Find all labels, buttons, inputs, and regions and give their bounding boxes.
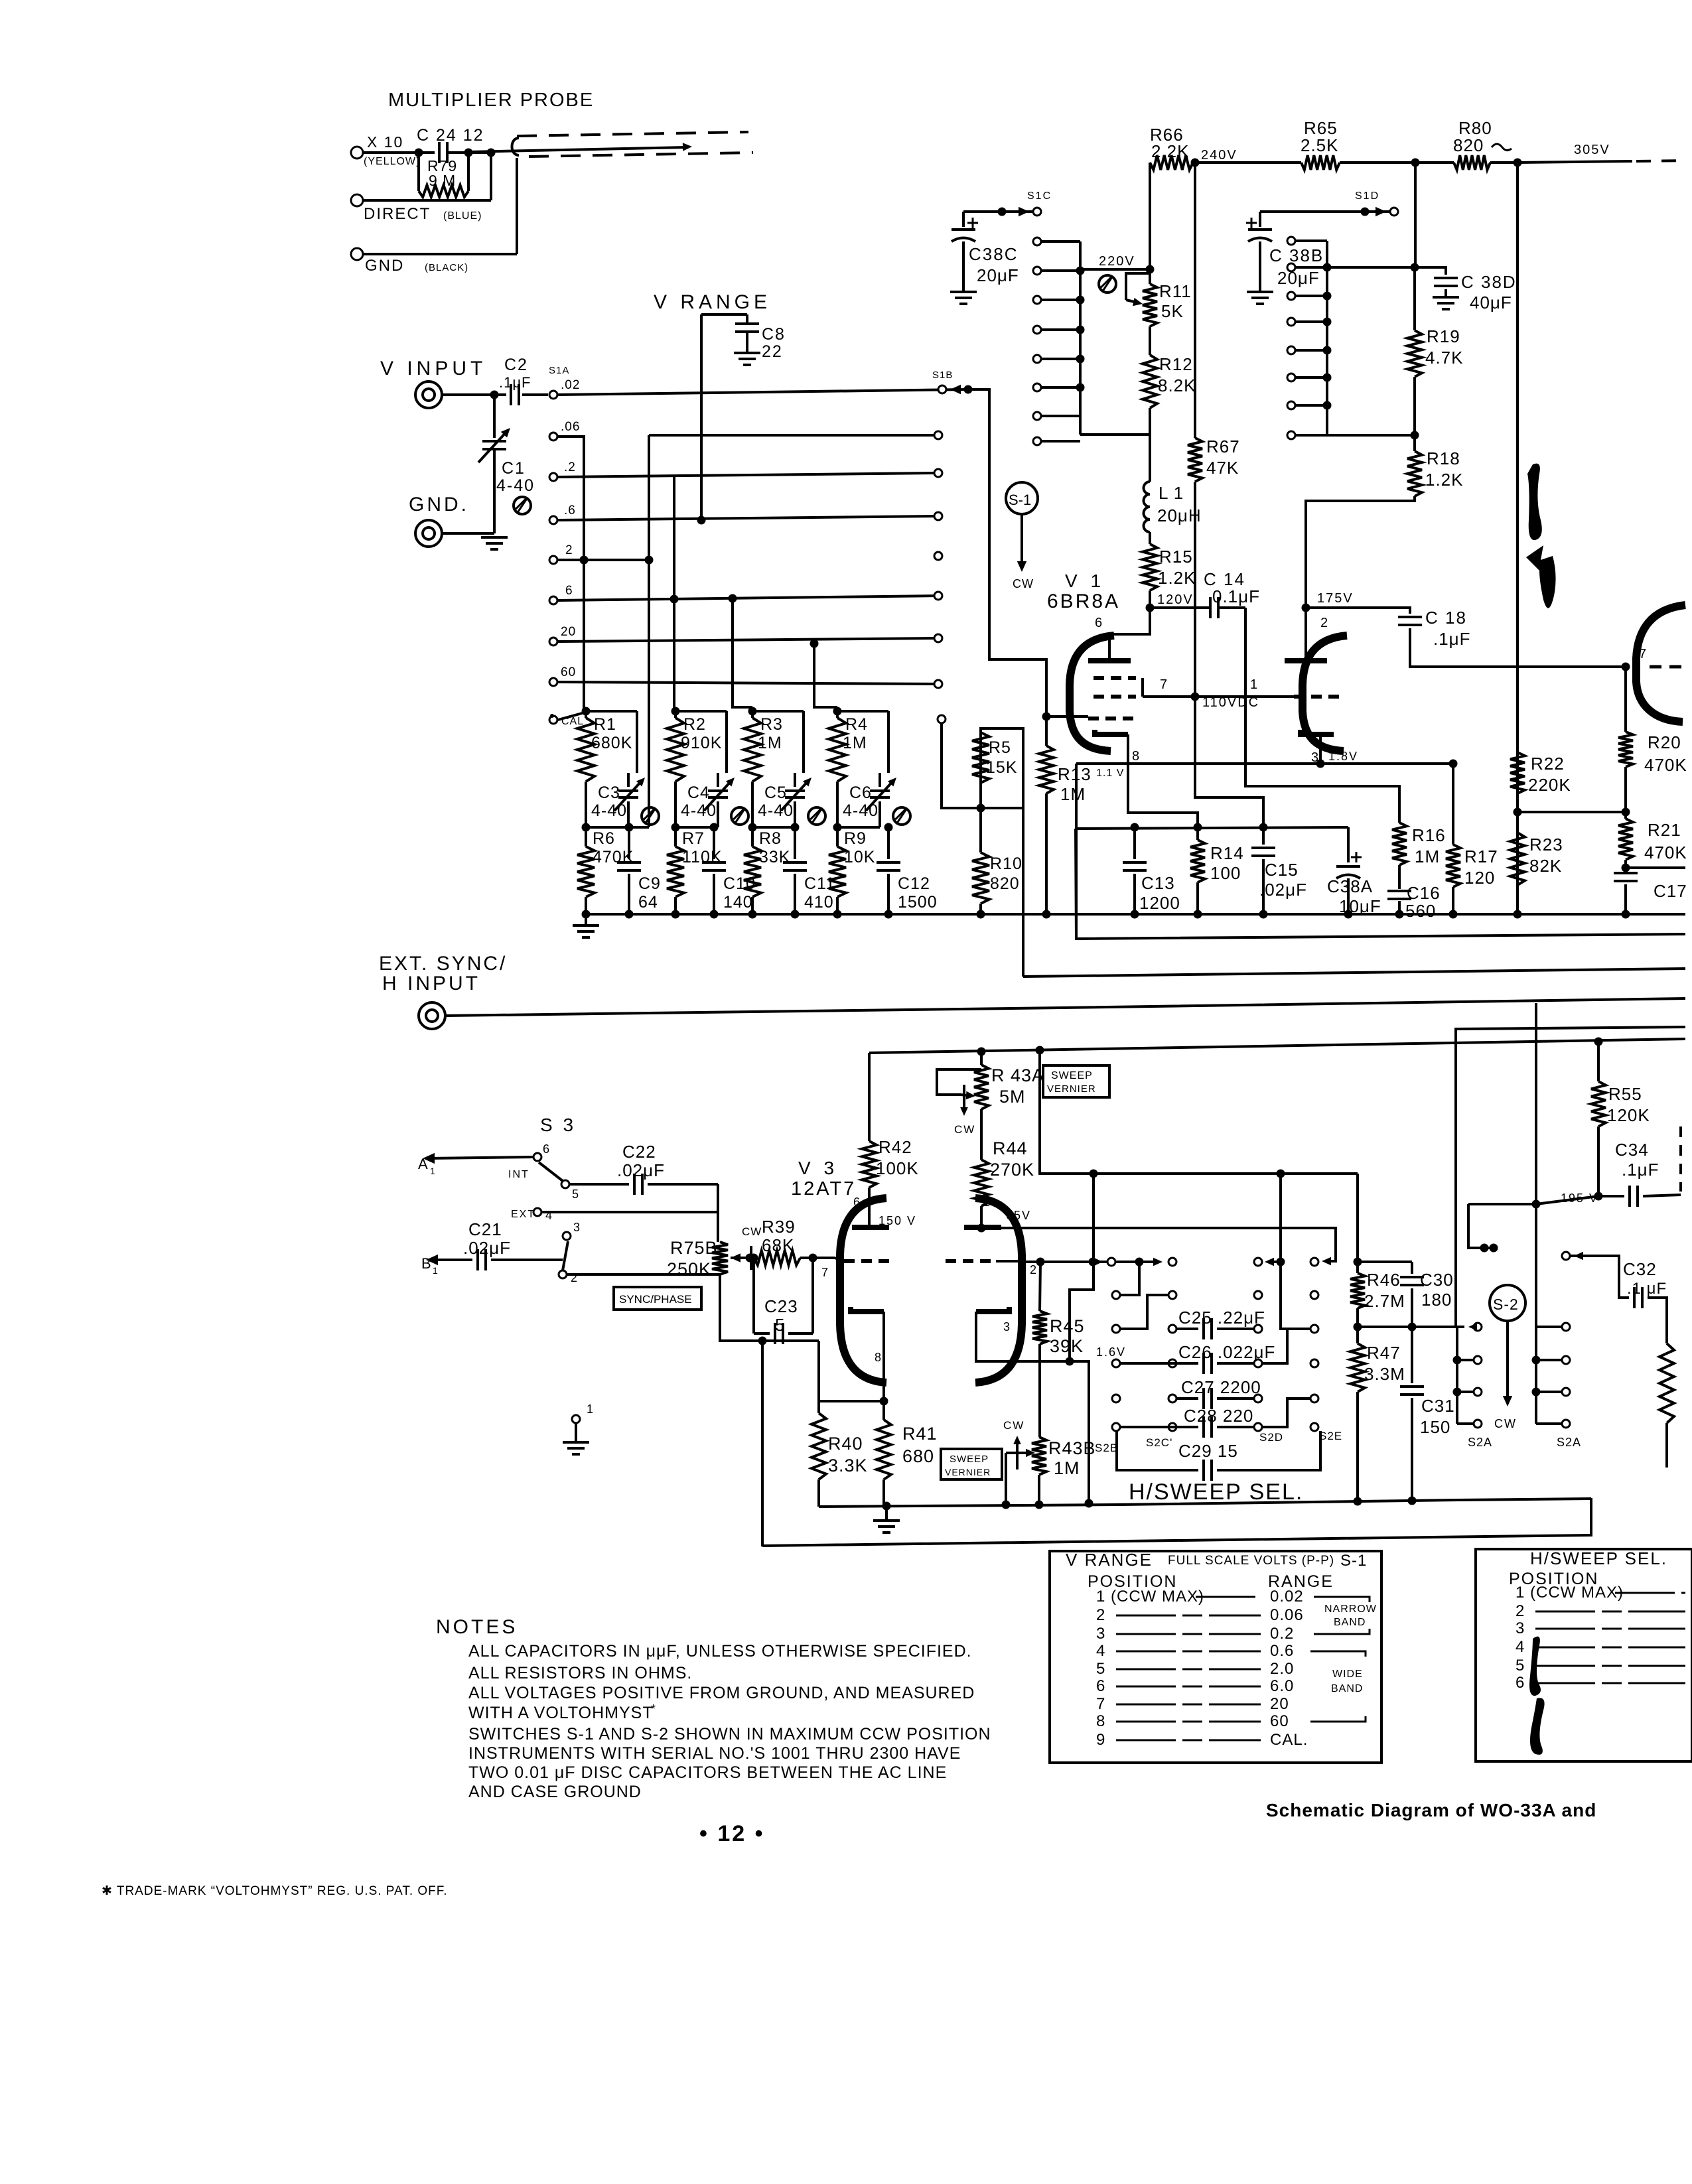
svg-text:C29 15: C29 15 (1178, 1441, 1238, 1461)
resistor R12 8.2K (1149, 326, 1151, 355)
wire S1C bus (1079, 241, 1082, 435)
wire R80 305V vertical (1516, 163, 1519, 914)
svg-text:7: 7 (1096, 1695, 1105, 1713)
tube V2 envelope (1303, 636, 1347, 751)
switch S2D contact column (1254, 1291, 1262, 1299)
wire S1D row2 to R19 top (1327, 266, 1415, 269)
capacitor C8 22 (746, 314, 748, 323)
svg-text:3.3M: 3.3M (1364, 1364, 1405, 1384)
svg-text:C31: C31 (1421, 1396, 1455, 1416)
tube V3 right cathode (976, 1307, 1009, 1312)
resistor R17 120 (1452, 764, 1454, 845)
switch S3 contact 5 (561, 1180, 569, 1188)
tube V1 grid bracket (1141, 678, 1144, 697)
switch S1B selected contact with wiper arrow (938, 385, 946, 393)
svg-text:.02μF: .02μF (617, 1160, 665, 1180)
svg-text:S2B: S2B (1095, 1442, 1118, 1454)
wire EXT contact down to B line (541, 1211, 718, 1213)
resistor R22 220K (1516, 163, 1519, 752)
svg-text:(YELLOW): (YELLOW) (364, 156, 420, 167)
wire 65V node (980, 1206, 983, 1228)
wire S1A 20 row (558, 638, 938, 642)
capacitor C16 560 (1398, 865, 1401, 889)
svg-text:2.7M: 2.7M (1364, 1291, 1405, 1311)
svg-text:3: 3 (1096, 1625, 1105, 1643)
svg-text:V RANGE: V RANGE (1066, 1550, 1153, 1570)
svg-text:C 18: C 18 (1425, 608, 1467, 628)
svg-text:V INPUT: V INPUT (380, 358, 486, 379)
svg-text:0.6: 0.6 (1270, 1642, 1294, 1660)
svg-text:9: 9 (1096, 1731, 1105, 1749)
svg-text:0.2: 0.2 (1270, 1625, 1294, 1643)
resistor R13 1M (1045, 717, 1048, 746)
svg-text:R67: R67 (1206, 437, 1240, 456)
wire wafer2 selected feed (1570, 1256, 1629, 1298)
wire rail left end to line A (1076, 829, 1076, 939)
wire R5 box to output line B (1022, 808, 1024, 977)
svg-text:INT: INT (508, 1169, 529, 1180)
svg-text:R41: R41 (902, 1424, 938, 1444)
svg-text:CW: CW (742, 1225, 762, 1238)
svg-text:C13: C13 (1141, 873, 1175, 893)
svg-text:4.7K: 4.7K (1425, 348, 1464, 368)
wire A1 output (423, 1153, 435, 1164)
trimmer capacitor C4 4-40 (717, 773, 719, 787)
wire 110VDC feed down to cathode rail (1195, 697, 1263, 827)
tube V3 envelope (840, 1198, 886, 1383)
tube V4 partial envelope at right edge (1636, 605, 1685, 722)
svg-text:R22: R22 (1531, 754, 1565, 774)
svg-text:R14: R14 (1210, 843, 1244, 863)
wire R75B bottom to R40 and sweep return (720, 1274, 762, 1341)
resistor R66 2.2K (1149, 163, 1151, 269)
svg-text:2: 2 (1096, 1606, 1105, 1624)
wire R20 R21 junction (1517, 811, 1626, 813)
svg-text:1: 1 (430, 1166, 435, 1176)
svg-text:Schematic Diagram of WO-33A: Schematic Diagram of WO-33A and (1266, 1800, 1596, 1820)
potentiometer R43B 1M (1032, 1437, 1046, 1475)
coax cable to scope (512, 138, 520, 155)
terminal V INPUT (415, 381, 442, 408)
wire (449, 151, 491, 154)
svg-text:3: 3 (1516, 1619, 1525, 1637)
svg-text:6BR8A: 6BR8A (1047, 590, 1120, 612)
svg-text:ALL VOLTAGES POSITIVE FROM: ALL VOLTAGES POSITIVE FROM GROUND, AND M… (468, 1684, 975, 1702)
svg-text:1: 1 (433, 1265, 438, 1276)
svg-text:NARROW: NARROW (1324, 1604, 1377, 1615)
svg-text:.2: .2 (564, 460, 576, 474)
terminal EXT SYNC H INPUT (419, 1002, 445, 1029)
svg-text:5: 5 (1516, 1657, 1525, 1674)
svg-text:1500: 1500 (898, 893, 938, 912)
svg-text:15K: 15K (986, 758, 1017, 777)
capacitor C11 410 (794, 827, 796, 859)
svg-text:R42: R42 (879, 1137, 912, 1157)
svg-text:R12: R12 (1159, 354, 1193, 374)
svg-text:9 M: 9 M (429, 172, 456, 189)
svg-text:R46: R46 (1367, 1270, 1401, 1290)
svg-text:305V: 305V (1574, 143, 1610, 157)
svg-text:82K: 82K (1529, 856, 1562, 876)
svg-text:✱ TRADE-MARK “VOLTOHMYST” RE: ✱ TRADE-MARK “VOLTOHMYST” REG. U.S. PAT.… (102, 1884, 448, 1898)
wire V RANGE bracket (701, 313, 747, 316)
resistor R11 5K potentiometer (1149, 269, 1151, 284)
svg-text:910K: 910K (681, 734, 722, 752)
wire to C30 top (1358, 1261, 1412, 1263)
svg-text:MULTIPLIER PROBE: MULTIPLIER PROBE (388, 90, 594, 111)
wire S1A .6 row (558, 516, 938, 520)
switch S2D selected contact (1254, 1258, 1262, 1266)
svg-text:C 38D: C 38D (1461, 272, 1517, 292)
wire R18 bottom to 175V node (1306, 496, 1415, 608)
svg-text:C22: C22 (622, 1142, 656, 1162)
svg-text:R39: R39 (762, 1217, 796, 1237)
V RANGE table box (1050, 1551, 1381, 1763)
svg-text:8: 8 (1132, 749, 1140, 764)
capacitor C38D 40uF (1415, 267, 1446, 275)
resistor R46 2.7M (1350, 1273, 1365, 1308)
svg-text:S-2: S-2 (1493, 1296, 1519, 1313)
wire S1A .02 row to S1B (558, 389, 968, 395)
svg-text:C6: C6 (849, 784, 872, 802)
svg-text:C2: C2 (504, 356, 528, 374)
resistor R42 100K (868, 1053, 871, 1141)
svg-text:.02: .02 (561, 378, 580, 392)
svg-text:2.5K: 2.5K (1301, 135, 1339, 155)
ground bus (586, 913, 1685, 916)
svg-text:C17: C17 (1654, 881, 1687, 901)
wire step S2D row5 to S2E row4 (1262, 1399, 1310, 1427)
capacitor C17 (1626, 866, 1685, 869)
trimmer capacitor C5 4-40 (794, 773, 796, 787)
svg-text:220V: 220V (1099, 254, 1135, 269)
svg-text:6: 6 (853, 1195, 861, 1209)
svg-text:0.1μF: 0.1μF (1212, 586, 1260, 606)
svg-text:39K: 39K (1050, 1336, 1084, 1356)
svg-text:*: * (651, 1702, 656, 1716)
capacitor C12 1500 (887, 827, 890, 859)
wire V3 pin2 to switch row (1022, 1261, 1152, 1263)
svg-text:R20: R20 (1648, 732, 1681, 752)
wire CAL to R1 top (558, 713, 585, 720)
trimmer capacitor C6 4-40 (879, 773, 881, 787)
resistor R15 1.2K (1149, 532, 1151, 544)
svg-text:S-1: S-1 (1340, 1552, 1367, 1570)
svg-text:ALL CAPACITORS IN μμF, UNLE: ALL CAPACITORS IN μμF, UNLESS OTHERWISE … (468, 1642, 972, 1661)
svg-text:3: 3 (573, 1221, 581, 1234)
svg-text:2: 2 (1516, 1602, 1525, 1620)
svg-text:CW: CW (1013, 577, 1034, 590)
capacitor C30 180 (1411, 1262, 1413, 1274)
wire .06 tap segment to S1B (649, 434, 938, 437)
svg-text:H/SWEEP SEL.: H/SWEEP SEL. (1129, 1479, 1303, 1505)
svg-text:4-40: 4-40 (681, 801, 717, 820)
resistor R39 68K (750, 1257, 754, 1259)
svg-text:100: 100 (1210, 863, 1241, 883)
svg-text:R21: R21 (1648, 820, 1681, 840)
switch S1D selected contact (1361, 208, 1370, 216)
switch S2B contact column (1112, 1291, 1120, 1299)
svg-text:1: 1 (983, 1195, 991, 1209)
svg-text:WITH A VOLTOHMYST: WITH A VOLTOHMYST (468, 1704, 654, 1722)
svg-text:240V: 240V (1201, 148, 1237, 163)
sweep vernier label box 2 (941, 1449, 1002, 1479)
wire R75B wiper to R39 (746, 1254, 754, 1263)
ink smudge artifact (1527, 464, 1542, 541)
resistor R8 33K (751, 827, 754, 847)
svg-text:CW: CW (954, 1123, 975, 1136)
svg-text:H INPUT: H INPUT (382, 973, 480, 994)
svg-text:S 3: S 3 (540, 1115, 576, 1135)
ground (734, 352, 760, 354)
svg-text:2: 2 (1320, 616, 1328, 630)
capacitor C38B 20uF electrolytic (1259, 212, 1261, 227)
svg-text:40μF: 40μF (1470, 293, 1512, 312)
H SWEEP table box (1476, 1549, 1692, 1761)
capacitor C38C 20uF electrolytic (962, 212, 965, 227)
svg-text:S1C: S1C (1027, 190, 1052, 202)
wire S1A 2 row (558, 559, 649, 561)
svg-text:C9: C9 (638, 874, 661, 893)
svg-text:R40: R40 (828, 1434, 863, 1454)
svg-text:R10: R10 (990, 854, 1022, 873)
svg-text:WIDE: WIDE (1332, 1669, 1363, 1680)
wire S1D bus (1326, 241, 1328, 435)
svg-text:410: 410 (804, 893, 834, 912)
svg-text:1.2K: 1.2K (1158, 568, 1196, 588)
svg-text:1200: 1200 (1139, 893, 1180, 913)
svg-text:VERNIER: VERNIER (945, 1467, 991, 1477)
resistor R10 820 (979, 808, 982, 853)
tube V1 grid dashes (1093, 676, 1136, 680)
svg-text:R19: R19 (1427, 326, 1460, 346)
switch S3 wiper 6-5 (539, 1162, 563, 1181)
svg-text:R9: R9 (844, 829, 867, 848)
tube V2 grid dashes (1294, 695, 1344, 699)
sweep rail 150V (869, 1039, 1685, 1053)
svg-text:22: 22 (762, 342, 783, 361)
svg-text:R2: R2 (683, 715, 706, 734)
wire step S2B row3 to S2C row2 (1120, 1295, 1168, 1329)
svg-text:1M: 1M (1060, 784, 1086, 804)
svg-text:EXT: EXT (511, 1209, 535, 1220)
svg-text:C23: C23 (764, 1296, 798, 1316)
ink smudge in table (1529, 1637, 1541, 1696)
wire step S2D row3 to S2E row2 (1262, 1329, 1310, 1363)
switch S3 contact 1 and ground (572, 1415, 580, 1423)
svg-text:C25 .22μF: C25 .22μF (1178, 1308, 1265, 1328)
capacitor C24 12 (415, 149, 423, 157)
capacitor C18 .1uF (1398, 616, 1422, 618)
svg-text:1M: 1M (1054, 1458, 1080, 1478)
switch S1C contact column (1033, 238, 1041, 245)
svg-text:4: 4 (1096, 1642, 1105, 1660)
svg-text:C27 2200: C27 2200 (1181, 1377, 1261, 1397)
capacitor C31 150 (1411, 1327, 1413, 1383)
svg-text:195 V: 195 V (1561, 1192, 1598, 1205)
svg-text:20: 20 (1270, 1695, 1289, 1713)
switch S1C selected contact (998, 208, 1007, 216)
svg-text:S2D: S2D (1259, 1431, 1283, 1444)
svg-text:6: 6 (1095, 616, 1103, 630)
capacitor C10 140 (713, 827, 715, 859)
switch S3 contact 2 (559, 1270, 567, 1278)
svg-text:2.0: 2.0 (1270, 1660, 1294, 1678)
svg-text:0.02: 0.02 (1270, 1588, 1304, 1605)
ground (873, 1519, 900, 1522)
svg-text:2: 2 (565, 543, 573, 557)
svg-text:S2A: S2A (1557, 1436, 1581, 1449)
svg-text:175V: 175V (1317, 591, 1354, 606)
svg-text:S1A: S1A (549, 365, 569, 376)
switch S2C contact column (1168, 1291, 1176, 1299)
R43A wiper loop (937, 1069, 981, 1095)
svg-text:S1D: S1D (1355, 190, 1379, 202)
svg-text:C 24 12: C 24 12 (417, 126, 484, 145)
capacitor C22 .02uF (569, 1183, 629, 1186)
screwdriver adjust (893, 807, 910, 825)
wire 120V node (1149, 590, 1151, 608)
svg-text:560: 560 (1405, 901, 1436, 921)
svg-text:120: 120 (1464, 868, 1495, 888)
svg-text:60: 60 (561, 665, 576, 679)
wire 175V line (1302, 604, 1310, 612)
tube V3 grids (844, 1259, 894, 1263)
screwdriver adjust (642, 807, 659, 825)
svg-text:150: 150 (1420, 1417, 1450, 1437)
wire C22 to R75B top (717, 1184, 719, 1242)
resistor R3 1M (748, 707, 757, 716)
svg-text:65V: 65V (1006, 1209, 1031, 1222)
svg-text:7: 7 (1160, 677, 1168, 692)
svg-text:820: 820 (990, 874, 1020, 893)
svg-text:FULL SCALE VOLTS (P-P): FULL SCALE VOLTS (P-P) (1168, 1554, 1334, 1568)
wire S1C bus bottom to R12 bottom (1080, 433, 1150, 436)
resistor R6 470K (585, 827, 587, 847)
wire cathode rail (1076, 827, 1348, 829)
resistor R18 1.2K (1413, 435, 1416, 451)
svg-text:6.0: 6.0 (1270, 1677, 1294, 1695)
svg-text:270K: 270K (990, 1160, 1034, 1180)
svg-text:5K: 5K (1161, 301, 1184, 321)
resistor R16 1M (1392, 823, 1407, 865)
wire (442, 393, 506, 396)
svg-text:470K: 470K (1644, 755, 1687, 775)
svg-text:3.3K: 3.3K (828, 1456, 868, 1475)
svg-text:.06: .06 (561, 420, 580, 434)
svg-text:5M: 5M (999, 1087, 1026, 1107)
svg-text:SWITCHES S-1 AND S-2 SHOWN: SWITCHES S-1 AND S-2 SHOWN IN MAXIMUM CC… (468, 1725, 991, 1743)
svg-text:4-40: 4-40 (591, 801, 627, 820)
svg-text:TWO 0.01 μF DISC CAPACITORS: TWO 0.01 μF DISC CAPACITORS BETWEEN THE … (468, 1763, 947, 1782)
capacitor C9 64 (628, 827, 630, 859)
svg-text:2.2K: 2.2K (1151, 141, 1190, 161)
svg-text:L 1: L 1 (1159, 483, 1184, 503)
svg-text:R15: R15 (1159, 547, 1193, 567)
wire 305V line (1517, 161, 1632, 163)
sweep bottom return wire (762, 1498, 1591, 1546)
tube V2 cathode (1301, 730, 1334, 734)
svg-text:A: A (418, 1156, 429, 1172)
svg-text:C3: C3 (598, 784, 620, 802)
svg-text:R6: R6 (593, 829, 615, 848)
resistor R40 3.3K (817, 1341, 820, 1401)
svg-text:R5: R5 (989, 738, 1011, 757)
resistor R45 39K (1036, 1258, 1045, 1266)
svg-text:1.6V: 1.6V (1096, 1345, 1126, 1359)
potentiometer R75B 250K (712, 1242, 728, 1274)
svg-text:S1B: S1B (932, 370, 953, 381)
wire S1A .2 row (558, 473, 938, 477)
svg-text:6: 6 (1096, 1677, 1105, 1695)
wire ext sync down to S2A wafer2 (1535, 1003, 1537, 1327)
tube V3 left cathode (851, 1307, 884, 1312)
resistor far right partial (1659, 1343, 1674, 1423)
svg-text:EΧT. SYNC/: EΧT. SYNC/ (379, 953, 507, 975)
svg-text:C34: C34 (1615, 1140, 1649, 1160)
svg-text:8: 8 (875, 1351, 882, 1364)
resistor R23 82K (1516, 812, 1519, 833)
svg-text:47K: 47K (1206, 458, 1239, 478)
capacitor C14 0.1uF (1209, 597, 1212, 618)
variable capacitor C1 4-40 (493, 395, 496, 438)
svg-text:S2E: S2E (1319, 1430, 1342, 1442)
ground (950, 291, 977, 293)
capacitor C34 .1uF (1598, 1195, 1624, 1197)
tube V1 cathode (1095, 730, 1128, 734)
ground (563, 1441, 589, 1444)
svg-text:CW: CW (1003, 1419, 1024, 1432)
svg-text:60: 60 (1270, 1712, 1289, 1730)
svg-text:680: 680 (902, 1446, 934, 1466)
switch S2A wafer2 contacts (1562, 1252, 1570, 1260)
wire bus to R1 divider node (628, 826, 649, 829)
svg-text:6: 6 (565, 584, 573, 598)
resistor R67 47K (1188, 438, 1202, 482)
svg-text:C4: C4 (687, 784, 710, 802)
svg-text:6: 6 (1516, 1674, 1525, 1692)
svg-text:VERNIER: VERNIER (1047, 1083, 1096, 1095)
svg-text:C26 .022μF: C26 .022μF (1178, 1342, 1275, 1362)
rail tap to R46 feed (1036, 1046, 1044, 1055)
svg-text:R13: R13 (1058, 764, 1092, 784)
capacitor C13 1200 (1133, 827, 1136, 859)
svg-text:20μF: 20μF (1277, 268, 1320, 288)
screwdriver adjust (1099, 275, 1116, 293)
sweep section bottom bus (819, 1499, 1591, 1507)
svg-text:R4: R4 (845, 715, 868, 734)
svg-text:C1: C1 (502, 459, 526, 478)
svg-text:SWEEP: SWEEP (950, 1454, 989, 1465)
dashed continuation (1679, 1126, 1682, 1192)
svg-text:180: 180 (1421, 1290, 1452, 1310)
svg-text:R8: R8 (759, 829, 782, 848)
resistor R79 9M (417, 153, 420, 191)
svg-text:C38C: C38C (969, 244, 1018, 264)
svg-text:C28 220: C28 220 (1184, 1406, 1253, 1426)
wire S1A 60 row (558, 682, 938, 684)
svg-text:R18: R18 (1427, 448, 1460, 468)
resistor R41 680 (880, 1397, 888, 1406)
svg-text:AND CASE GROUND: AND CASE GROUND (468, 1783, 642, 1801)
svg-text:1M: 1M (843, 734, 867, 752)
svg-text:.1 μF: .1 μF (1627, 1280, 1667, 1298)
svg-text:R17: R17 (1464, 847, 1498, 866)
wire C14 to R16 (1245, 608, 1399, 823)
svg-text:NOTES: NOTES (436, 1616, 518, 1638)
wire S1A 6 row (558, 596, 938, 600)
svg-text:1.2K: 1.2K (1425, 470, 1464, 490)
